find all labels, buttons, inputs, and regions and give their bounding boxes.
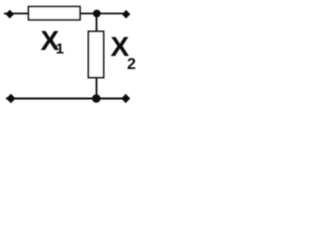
svg-text:2: 2	[127, 56, 136, 73]
svg-text:1: 1	[56, 41, 64, 58]
